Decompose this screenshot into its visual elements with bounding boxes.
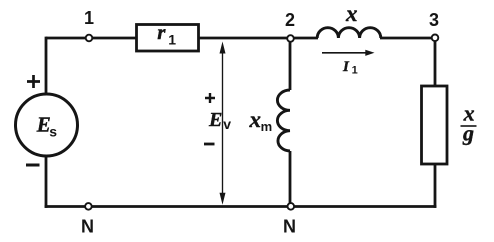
wire: magnetizing branch below coil [289,151,292,207]
inductor x_m (magnetizing coil) [277,90,290,151]
voltage E_v minus sign [204,143,215,146]
svg-text:v: v [223,116,231,132]
source minus sign [26,164,40,167]
svg-text:s: s [49,124,57,140]
wire: magnetizing branch above coil [289,39,292,90]
svg-text:1: 1 [352,65,358,77]
wire: bottom bus N [45,205,437,208]
svg-text:g: g [462,121,474,146]
source E_s circle [16,94,78,156]
svg-text:N: N [283,217,296,237]
voltage arrow E_v (double headed) [222,50,224,196]
svg-text:3: 3 [429,10,439,30]
wire: top bus, node1 to coil start [46,37,318,40]
svg-text:1: 1 [168,32,176,48]
node 3 terminal circle [432,35,439,42]
svg-text:E: E [208,109,222,131]
wire: left branch vertical through source [45,37,48,208]
svg-text:x: x [249,107,262,132]
svg-text:2: 2 [285,10,295,30]
resistor x/g box [422,86,448,164]
resistor r1 box [137,25,199,52]
node 2 terminal circle [287,35,294,42]
source plus sign [27,75,40,88]
inductor x (top coil) [317,28,381,38]
svg-text:x: x [345,1,358,26]
node N left terminal circle [85,203,92,210]
svg-text:m: m [261,119,273,134]
voltage E_v plus sign [205,93,215,103]
svg-text:r: r [157,20,166,44]
node 1 terminal circle [86,35,93,42]
svg-text:I: I [342,59,350,75]
wire: right branch vertical through x/g box [434,37,437,208]
svg-text:N: N [81,217,94,237]
current I1 arrow [322,52,367,54]
svg-text:1: 1 [84,8,94,28]
wire: top bus, coil end to node 3 [380,37,435,40]
node N right terminal circle [288,203,295,210]
